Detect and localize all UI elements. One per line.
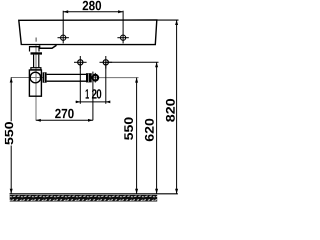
dim 280 line [63,11,123,13]
dim 550 mid text [124,117,133,140]
dim 620 line [155,62,158,194]
drain centerline dash in basin [35,38,37,42]
wall fix hole left [74,56,87,69]
dim 270 arrow left [36,119,41,122]
drain centerline vertical [35,45,37,120]
dim 120 ext right [105,62,107,104]
mounting hole left [58,32,69,43]
dim 280 ext left [62,11,64,32]
wall drain hole [93,73,99,83]
trap horizontal centerline left [11,77,47,79]
tailpipe [34,55,39,68]
dim 620 ext [106,61,159,63]
trap top nut [31,68,41,70]
dim 550 left text [4,121,16,145]
dim 280 arrow left [63,10,68,13]
dim 280 ext right [122,11,124,32]
wall fix hole right [100,56,113,69]
bowl underside outline [40,45,57,48]
dim 820 line [175,20,178,194]
pipe connector nut [43,72,47,82]
dim 270 line [36,119,93,121]
dim 120 arrow left [76,101,81,104]
trap horizontal centerline right [92,77,139,79]
dim 120 ext left [79,62,81,104]
dim 280 arrow right [118,10,123,13]
dim 820 text [166,99,175,122]
trap body [29,70,41,96]
trap circle [30,72,41,83]
dim 280 text [83,1,101,11]
dim 620 text [145,119,154,141]
basin outline [19,20,157,45]
dim 270 text [55,109,74,119]
mounting hole right [117,32,128,43]
dim 120 line [76,101,110,103]
dim 270 arrow right [88,119,93,122]
dim 120 arrow right [106,101,111,104]
floor hatch band [10,195,158,202]
dim 550 mid line [135,78,138,194]
drain flange cup [29,46,40,52]
ground line [10,193,178,195]
dim 270 ext right [92,72,94,121]
outlet pipe [47,74,88,81]
dim 550 left line [10,78,13,194]
pipe wall cap [86,73,92,82]
tailpipe nut [31,52,43,54]
dim 820 ext [157,19,179,21]
dim 120 text [86,89,89,98]
